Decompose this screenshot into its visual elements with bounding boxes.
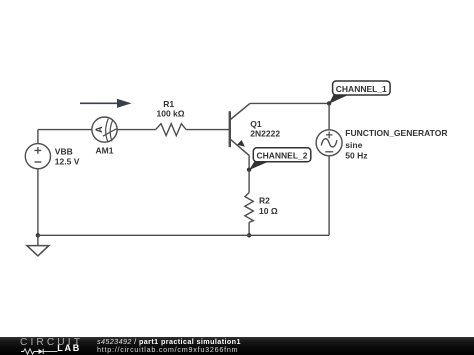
svg-text:CHANNEL_1: CHANNEL_1 (336, 84, 387, 94)
svg-text:sine: sine (345, 140, 362, 150)
current direction arrow annotation (80, 99, 132, 108)
function generator FUNCTION_GENERATOR (316, 130, 342, 156)
svg-text:A: A (94, 126, 104, 133)
footer brand bar (0, 337, 474, 355)
label Q1 2N2222 (250, 119, 280, 139)
wire: ammeter to R1 (117, 129, 155, 131)
voltage source VBB 12.5V (25, 144, 50, 169)
wire: bottom rail (38, 234, 329, 236)
wire: function generator to bottom rail (328, 156, 330, 236)
junction dot R2/bottom rail (247, 233, 251, 237)
resistor R1 (156, 124, 187, 136)
junction dot ground node (36, 233, 40, 237)
svg-text:100 kΩ: 100 kΩ (157, 109, 185, 119)
svg-text:10 Ω: 10 Ω (259, 206, 278, 216)
label AM1 (96, 146, 114, 156)
label VBB 12.5 V (55, 146, 80, 166)
flag CHANNEL_1 (329, 81, 390, 104)
transistor Q1 2N2222 (230, 104, 250, 156)
ammeter AM1 (92, 117, 117, 142)
node CHANNEL_2 junction dot (247, 168, 251, 172)
wire: node to R2 (248, 170, 250, 193)
label FUNCTION_GENERATOR sine 50 Hz (345, 128, 447, 161)
svg-text:AM1: AM1 (96, 146, 114, 156)
wire: collector top rail to junction (250, 102, 329, 104)
node CHANNEL_1 junction dot (327, 101, 331, 105)
ground (27, 235, 49, 256)
svg-text:R2: R2 (259, 196, 270, 206)
wire: channel-1 node down to function generator (328, 103, 330, 129)
label R1 100 kOhm (157, 99, 185, 119)
svg-text:CHANNEL_2: CHANNEL_2 (256, 151, 307, 161)
wire: R2 to bottom rail (248, 222, 250, 235)
resistor R2 (245, 193, 253, 223)
wire: R1 to transistor base (186, 129, 229, 131)
label R2 10 Ohm (259, 196, 278, 216)
svg-text:FUNCTION_GENERATOR: FUNCTION_GENERATOR (345, 128, 447, 138)
svg-text:2N2222: 2N2222 (250, 129, 280, 139)
svg-text:VBB: VBB (55, 146, 73, 156)
svg-text:12.5 V: 12.5 V (55, 157, 80, 167)
wire: emitter down to channel-2 node (248, 155, 250, 170)
svg-text:R1: R1 (163, 99, 174, 109)
wire: VBB top lead up to top rail (37, 130, 39, 144)
wire: top rail from VBB corner to ammeter (38, 129, 92, 131)
wire: VBB bottom lead (37, 169, 39, 236)
svg-text:Q1: Q1 (250, 119, 262, 129)
flag CHANNEL_2 (249, 148, 311, 170)
svg-text:50 Hz: 50 Hz (345, 150, 367, 160)
